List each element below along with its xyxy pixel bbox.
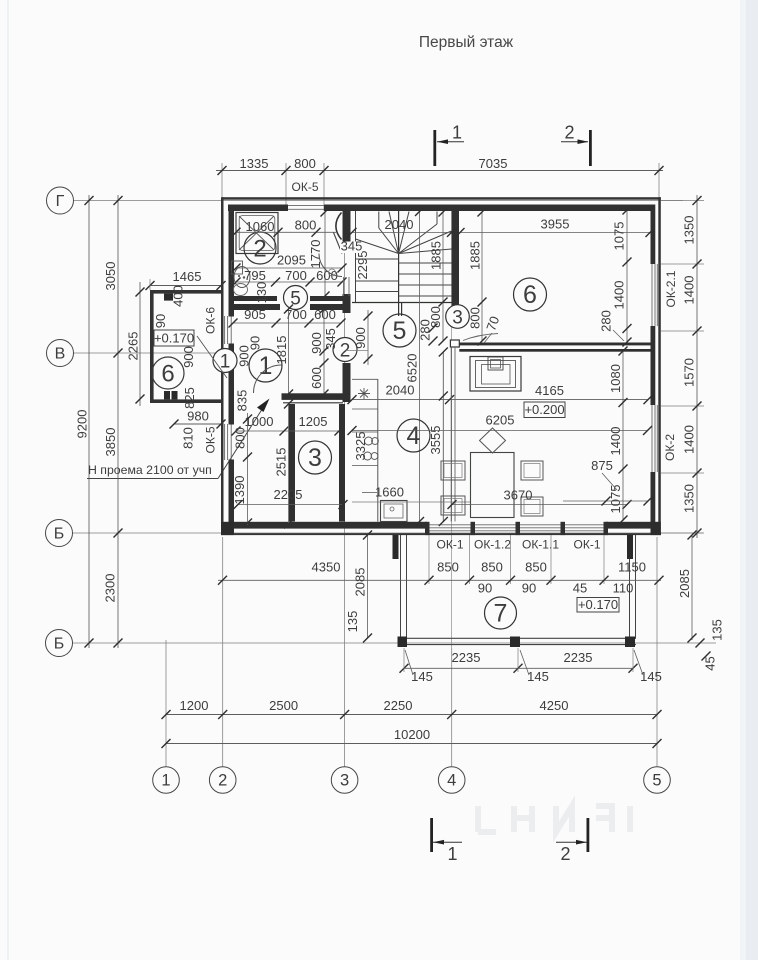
chair left 1 bbox=[441, 461, 465, 480]
svg-text:ОК-1: ОК-1 bbox=[574, 538, 601, 552]
svg-text:1350: 1350 bbox=[682, 216, 697, 245]
fireplace bbox=[470, 357, 521, 392]
wall room3 left bbox=[289, 404, 295, 522]
svg-text:145: 145 bbox=[527, 669, 549, 684]
exterior wall right inner band bbox=[651, 205, 656, 265]
dimension 1465 tambour bbox=[150, 285, 221, 287]
svg-text:2040: 2040 bbox=[385, 217, 414, 232]
exterior wall left inner band bbox=[229, 205, 235, 317]
svg-text:1205: 1205 bbox=[299, 414, 328, 429]
shower cabin bbox=[236, 213, 278, 254]
svg-text:3: 3 bbox=[308, 444, 322, 472]
left dimension line 3050-3850-2300 bbox=[117, 195, 119, 648]
level mark +0.170 tambour bbox=[154, 330, 194, 346]
section mark 1 top bbox=[433, 130, 436, 166]
top dimension line 1335-800-7035 bbox=[216, 170, 663, 172]
dimension 6520 bbox=[419, 212, 421, 522]
room circle 4 bbox=[397, 419, 430, 452]
svg-text:1885: 1885 bbox=[429, 241, 444, 270]
node circle 3 bbox=[446, 305, 470, 329]
dimension 1815 bbox=[288, 309, 290, 394]
svg-text:Г: Г bbox=[56, 193, 65, 210]
svg-text:900: 900 bbox=[309, 332, 324, 354]
wall hall left bbox=[343, 363, 351, 402]
axis circle Б lower bbox=[46, 630, 73, 657]
node circle 2 bbox=[333, 338, 357, 362]
axis circle Б bbox=[46, 520, 73, 547]
dimension row 795-700-600 bbox=[236, 281, 342, 283]
axis circle 2 bottom bbox=[209, 767, 236, 794]
svg-text:850: 850 bbox=[525, 560, 547, 575]
svg-text:280: 280 bbox=[599, 310, 614, 332]
dimension 2205 bbox=[238, 504, 343, 506]
axis circle В bbox=[47, 340, 74, 367]
svg-text:2: 2 bbox=[218, 772, 227, 790]
svg-text:3325: 3325 bbox=[353, 432, 368, 461]
svg-text:ОК-5: ОК-5 bbox=[292, 180, 319, 194]
grid line axis 1 bbox=[165, 640, 167, 767]
tambour wall blocks bbox=[164, 294, 173, 301]
tambour bottom wall bbox=[150, 399, 221, 403]
svg-text:2: 2 bbox=[564, 123, 574, 143]
axis circle Г bbox=[47, 187, 74, 214]
grid line axis 5 bbox=[656, 537, 658, 767]
right porch dimension 2085 bbox=[691, 535, 693, 640]
right extension lines bbox=[661, 200, 704, 202]
svg-text:3955: 3955 bbox=[541, 217, 570, 232]
door jamb lines WC bbox=[343, 277, 345, 296]
svg-text:6: 6 bbox=[161, 361, 174, 388]
svg-text:400: 400 bbox=[171, 285, 186, 307]
axis circle 1 bottom bbox=[153, 767, 180, 794]
svg-text:3050: 3050 bbox=[103, 262, 118, 291]
section mark 1 bottom bbox=[430, 818, 433, 852]
node circle 5 bbox=[284, 286, 308, 310]
svg-text:4250: 4250 bbox=[540, 698, 569, 713]
svg-text:1350: 1350 bbox=[682, 484, 697, 513]
svg-text:1400: 1400 bbox=[608, 427, 623, 456]
door arc room3 bbox=[254, 365, 282, 393]
svg-text:2: 2 bbox=[340, 341, 351, 362]
svg-text:5: 5 bbox=[652, 772, 661, 790]
exterior wall right outer bbox=[658, 197, 661, 535]
bottom dimension row 1200-2500-2250-4250 bbox=[166, 714, 657, 716]
svg-text:135: 135 bbox=[345, 611, 360, 633]
porch right wall bbox=[629, 535, 631, 638]
washbasin bbox=[234, 267, 250, 288]
svg-text:1335: 1335 bbox=[240, 156, 269, 171]
svg-text:90: 90 bbox=[522, 581, 536, 596]
svg-text:6205: 6205 bbox=[486, 413, 515, 428]
svg-text:5: 5 bbox=[393, 317, 407, 345]
room circle 7 bbox=[485, 597, 517, 629]
right dimension chain 1350-1400-1570-1400-1350 bbox=[696, 195, 698, 538]
dimension 2515 bbox=[288, 404, 290, 524]
svg-text:1: 1 bbox=[447, 844, 457, 864]
dimension 1075-1400 inner right bbox=[626, 210, 628, 342]
svg-text:800: 800 bbox=[294, 156, 316, 171]
kitchen counter bbox=[377, 379, 379, 522]
windows OK-1 row bottom wall bbox=[427, 524, 606, 526]
left dimension line 2265 bbox=[139, 282, 141, 406]
svg-text:45: 45 bbox=[703, 656, 718, 670]
svg-text:1080: 1080 bbox=[608, 364, 623, 393]
svg-text:835: 835 bbox=[235, 390, 250, 412]
svg-text:1815: 1815 bbox=[274, 336, 289, 365]
stair center line bbox=[398, 211, 400, 303]
svg-text:1: 1 bbox=[161, 772, 170, 790]
room circle 5 hall bbox=[383, 314, 416, 347]
chair right 2 bbox=[521, 497, 543, 516]
svg-text:800: 800 bbox=[295, 218, 317, 233]
marker asterisk bbox=[358, 388, 370, 399]
wall room3 right bbox=[339, 404, 345, 522]
wall junction bathroom lower bbox=[233, 296, 277, 301]
svg-text:3850: 3850 bbox=[103, 428, 118, 457]
svg-text:4350: 4350 bbox=[312, 560, 341, 575]
exterior wall bottom outer bbox=[221, 533, 661, 535]
room circle 3 bbox=[299, 441, 332, 474]
svg-text:ОК-2: ОК-2 bbox=[663, 434, 677, 461]
faint watermark bbox=[478, 806, 630, 832]
svg-text:1200: 1200 bbox=[180, 698, 209, 713]
left dimension line 9200 bbox=[88, 195, 90, 648]
bottom dimension 10200 bbox=[166, 743, 657, 745]
dimension 900-345-600 column bbox=[323, 309, 325, 394]
window OK-5 left wall lower bbox=[224, 424, 226, 460]
leader diagonal to node 1 bbox=[197, 336, 227, 378]
left porch dimension 2085 bbox=[367, 535, 369, 638]
room circle 1 bbox=[249, 349, 282, 382]
room circle 2 bathroom bbox=[244, 232, 276, 264]
svg-text:7: 7 bbox=[494, 600, 508, 628]
dimension 3555 partition line bbox=[442, 352, 444, 522]
svg-text:2235: 2235 bbox=[564, 650, 593, 665]
door WC swing arc bbox=[319, 254, 342, 277]
svg-text:1885: 1885 bbox=[468, 241, 483, 270]
wall end box room6 bottom bbox=[450, 340, 459, 347]
svg-text:В: В bbox=[55, 346, 66, 363]
chair left 2 bbox=[441, 496, 465, 515]
porch left wall bbox=[400, 535, 402, 638]
svg-text:700: 700 bbox=[285, 268, 307, 283]
stair left boundary bbox=[355, 211, 357, 303]
tambour top wall bbox=[150, 290, 221, 294]
leader 70 curve bbox=[463, 334, 498, 341]
grid line axis 2 bbox=[222, 537, 224, 767]
svg-text:1: 1 bbox=[259, 352, 273, 380]
svg-text:4: 4 bbox=[407, 422, 421, 450]
svg-text:6: 6 bbox=[523, 281, 537, 309]
wall room6 bottom bbox=[459, 343, 652, 346]
exterior wall top outer bbox=[222, 197, 661, 200]
level mark +0.200 bbox=[524, 402, 565, 418]
svg-text:900: 900 bbox=[353, 327, 368, 349]
svg-text:ОК-1.2: ОК-1.2 bbox=[474, 538, 511, 552]
svg-text:3670: 3670 bbox=[504, 488, 533, 503]
svg-text:2265: 2265 bbox=[126, 332, 141, 361]
window OK-2.1 right wall bbox=[651, 264, 653, 326]
exterior wall left outer bbox=[221, 197, 224, 535]
dimension 800 below stair left bbox=[442, 303, 444, 341]
svg-text:1400: 1400 bbox=[682, 276, 697, 305]
porch posts bbox=[393, 535, 399, 559]
svg-text:90: 90 bbox=[478, 581, 492, 596]
kitchen burners bbox=[365, 437, 373, 445]
svg-text:600: 600 bbox=[314, 307, 336, 322]
level mark +0.170 porch bbox=[577, 598, 619, 613]
label 345 on wall with box bbox=[340, 242, 362, 254]
porch bottom wall bbox=[400, 637, 636, 639]
svg-text:2040: 2040 bbox=[386, 383, 415, 398]
chair top diamond bbox=[480, 428, 506, 453]
svg-text:1: 1 bbox=[452, 123, 462, 143]
grid line axis 3 bbox=[344, 205, 346, 767]
dimension 1885 right bbox=[481, 212, 483, 341]
window OK-2 right wall bbox=[651, 405, 653, 472]
stair bottom edge bbox=[352, 302, 459, 304]
dimension 3955 bbox=[460, 232, 650, 234]
svg-text:4: 4 bbox=[447, 772, 456, 790]
svg-text:3555: 3555 bbox=[428, 426, 443, 455]
dimension 1770 bathroom bbox=[324, 212, 326, 296]
svg-text:2250: 2250 bbox=[384, 698, 413, 713]
svg-text:Н проема 2100 от учп: Н проема 2100 от учп bbox=[88, 463, 212, 477]
svg-text:1400: 1400 bbox=[682, 425, 697, 454]
section mark 2 bottom bbox=[587, 818, 590, 852]
wall stair room6 bbox=[452, 208, 460, 308]
svg-text:2500: 2500 bbox=[269, 698, 298, 713]
axis circle 5 bottom bbox=[644, 767, 671, 794]
svg-text:1465: 1465 bbox=[173, 269, 202, 284]
svg-text:Б: Б bbox=[54, 636, 65, 653]
svg-text:900: 900 bbox=[237, 345, 252, 367]
svg-text:ОК-1: ОК-1 bbox=[437, 538, 464, 552]
stair winder fan bbox=[356, 239, 399, 254]
door leaf upper WC bbox=[336, 213, 342, 240]
dimension 800-1390 column bbox=[247, 413, 249, 525]
svg-text:905: 905 bbox=[244, 307, 266, 322]
svg-text:2515: 2515 bbox=[274, 448, 289, 477]
svg-text:600: 600 bbox=[309, 367, 324, 389]
dimension 2040 kitchen and 4165 chain bbox=[352, 399, 648, 401]
svg-text:825: 825 bbox=[182, 387, 197, 409]
axis circle 3 bottom bbox=[331, 767, 358, 794]
svg-text:1660: 1660 bbox=[375, 485, 404, 500]
svg-text:2: 2 bbox=[253, 236, 266, 263]
axis line В bbox=[74, 352, 234, 354]
dimension line 4350 and 850 chain bbox=[218, 579, 661, 581]
room circle 6 bbox=[514, 278, 547, 311]
svg-text:ОК-1.1: ОК-1.1 bbox=[522, 538, 559, 552]
svg-text:1000: 1000 bbox=[245, 414, 274, 429]
svg-text:Б: Б bbox=[54, 526, 65, 543]
svg-text:345: 345 bbox=[341, 239, 363, 254]
wall bathroom right upper bbox=[343, 208, 351, 253]
svg-text:110: 110 bbox=[613, 581, 634, 596]
axis line Г bbox=[74, 200, 684, 202]
svg-text:2235: 2235 bbox=[452, 650, 481, 665]
svg-text:900: 900 bbox=[181, 346, 196, 368]
svg-text:+0.170: +0.170 bbox=[154, 331, 194, 346]
svg-text:2085: 2085 bbox=[353, 568, 368, 597]
svg-text:ОК-2.1: ОК-2.1 bbox=[664, 270, 678, 307]
porch dimension 2235 pair bbox=[404, 667, 633, 669]
svg-text:2085: 2085 bbox=[677, 569, 692, 598]
section mark 2 top bbox=[589, 130, 592, 166]
svg-text:ОК-6: ОК-6 bbox=[204, 307, 218, 334]
dining table bbox=[471, 453, 515, 518]
svg-text:130: 130 bbox=[254, 282, 269, 304]
kitchen sink cabinet bbox=[381, 501, 408, 522]
axis line Б bbox=[73, 532, 704, 534]
dimension row 905-700-600 bbox=[233, 322, 341, 324]
svg-text:850: 850 bbox=[481, 560, 503, 575]
tambour left wall bbox=[150, 290, 154, 403]
svg-text:+0.200: +0.200 bbox=[524, 402, 564, 417]
axis line Б lower bbox=[73, 642, 717, 644]
bottom extension lines windows bbox=[428, 535, 430, 584]
dimension 3670 bbox=[452, 504, 627, 506]
stair treads left flight bbox=[356, 258, 399, 260]
dimension 1885 left bbox=[442, 212, 444, 302]
svg-text:800: 800 bbox=[233, 427, 248, 449]
svg-text:345: 345 bbox=[323, 328, 338, 350]
svg-text:795: 795 bbox=[244, 268, 266, 283]
svg-text:2295: 2295 bbox=[355, 251, 370, 280]
window OK-6 left wall bbox=[224, 316, 226, 344]
svg-text:ОК-5: ОК-5 bbox=[204, 426, 218, 453]
svg-text:1400: 1400 bbox=[612, 281, 627, 310]
svg-text:Первый этаж: Первый этаж bbox=[419, 34, 514, 51]
dimension 980 bbox=[174, 423, 221, 425]
svg-text:135: 135 bbox=[710, 619, 725, 641]
svg-text:2205: 2205 bbox=[274, 487, 303, 502]
svg-text:1390: 1390 bbox=[232, 476, 247, 505]
node circle 1 bbox=[213, 349, 237, 373]
svg-text:3: 3 bbox=[452, 308, 463, 329]
dimension 900 hall right of wall bbox=[367, 310, 369, 365]
exterior wall bottom inner band bbox=[233, 522, 427, 529]
svg-text:10200: 10200 bbox=[394, 727, 430, 742]
svg-text:7035: 7035 bbox=[479, 156, 508, 171]
svg-text:2300: 2300 bbox=[103, 574, 118, 603]
top extension lines bbox=[221, 163, 223, 197]
svg-text:1570: 1570 bbox=[682, 358, 697, 387]
svg-text:1075: 1075 bbox=[612, 222, 627, 251]
svg-text:90: 90 bbox=[153, 314, 168, 328]
window OK-5 top wall bbox=[286, 205, 324, 207]
svg-text:850: 850 bbox=[437, 560, 459, 575]
svg-text:810: 810 bbox=[181, 427, 196, 449]
stair treads right flight bbox=[399, 262, 452, 264]
wall room3 top bbox=[282, 393, 344, 400]
svg-text:3: 3 bbox=[340, 772, 349, 790]
chair right 1 bbox=[521, 461, 543, 480]
svg-text:145: 145 bbox=[411, 669, 433, 684]
axis circle 4 bottom bbox=[438, 767, 465, 794]
svg-text:1770: 1770 bbox=[308, 240, 323, 269]
svg-text:45: 45 bbox=[573, 581, 587, 596]
svg-text:980: 980 bbox=[187, 409, 209, 424]
dimension 6205 bbox=[352, 430, 648, 432]
svg-text:2: 2 bbox=[560, 844, 570, 864]
svg-text:4165: 4165 bbox=[535, 383, 564, 398]
svg-text:2095: 2095 bbox=[277, 253, 306, 268]
exterior wall top inner band bbox=[228, 205, 284, 212]
svg-text:1150: 1150 bbox=[618, 560, 646, 575]
dimension 1000 corridor bbox=[236, 430, 339, 432]
svg-text:+0.170: +0.170 bbox=[578, 597, 618, 612]
svg-text:6520: 6520 bbox=[405, 354, 420, 383]
dimension 800 bathroom top bbox=[236, 231, 336, 233]
door WC leaf bbox=[334, 233, 343, 254]
svg-text:875: 875 bbox=[591, 458, 613, 473]
dimension 2040 stair bbox=[352, 231, 452, 233]
room circle 6 tambour bbox=[152, 357, 184, 389]
svg-text:145: 145 bbox=[640, 669, 662, 684]
dimension 1080-1400-1075 column bbox=[622, 351, 624, 521]
svg-text:9200: 9200 bbox=[75, 410, 90, 439]
grid line axis 4 bbox=[451, 205, 453, 648]
